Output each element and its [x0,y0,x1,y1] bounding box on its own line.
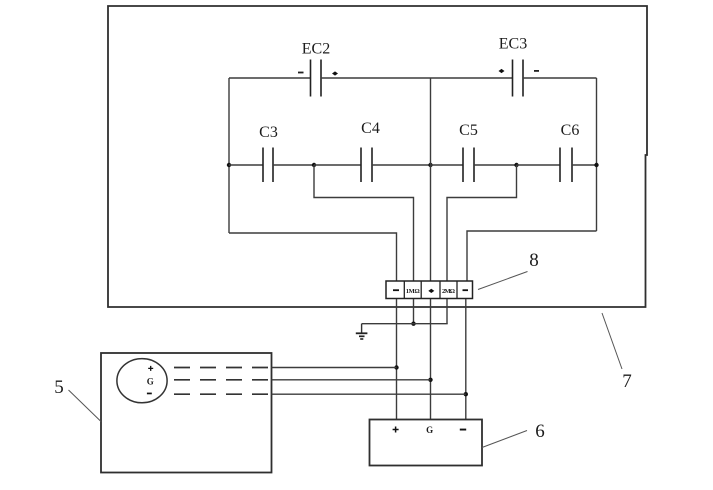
svg-text:C4: C4 [361,120,380,137]
wire [229,164,263,166]
svg-text:5: 5 [54,377,64,398]
capacitor C5 [459,122,478,182]
capacitor EC3 [499,36,540,97]
junction [594,163,598,167]
leader line to box 6 [482,431,527,448]
wire [431,164,464,166]
svg-text:C6: C6 [561,122,580,139]
wire [362,323,448,325]
wire [229,77,311,79]
capacitor EC2 [298,41,338,97]
wire [467,231,597,281]
junction [428,378,432,382]
svg-text:6: 6 [535,421,545,442]
wire [596,78,598,231]
svg-text:1MΩ: 1MΩ [406,288,420,295]
leader line to box 7 [602,313,622,369]
dashed wire [174,379,272,381]
svg-text:G: G [147,377,154,387]
junction [227,163,231,167]
wire [314,165,414,281]
wire [372,164,431,166]
wire [517,164,561,166]
wire [430,299,432,420]
leader line to box 5 [69,390,102,422]
wire [228,78,230,233]
wire [572,164,597,166]
power source box 5 [101,353,272,473]
wire [229,233,397,281]
wire [523,77,597,79]
svg-text:8: 8 [529,250,539,271]
junction [464,392,468,396]
svg-text:2MΩ: 2MΩ [442,288,455,295]
junction [411,322,415,326]
junction [428,163,432,167]
svg-text:G: G [426,425,433,435]
wire [272,379,431,381]
capacitor C4 [361,120,380,182]
leader line to block 8 [478,272,528,290]
dashed wire [174,367,272,369]
battery box 6 [370,420,483,466]
capacitor C6 [560,122,579,182]
wire [474,164,517,166]
dashed wire [174,393,272,395]
wire [447,165,517,281]
wire [465,299,467,420]
svg-text:C5: C5 [459,122,478,139]
svg-text:EC2: EC2 [302,41,330,58]
svg-text:7: 7 [622,371,632,392]
battery symbol [117,359,167,403]
wire [314,164,361,166]
wire [413,299,415,324]
wire [396,299,398,420]
wire [272,367,397,369]
wire [272,393,466,395]
capacitor C3 [259,124,278,182]
junction [394,365,398,369]
junction [514,163,518,167]
svg-text:C3: C3 [259,124,278,141]
wire [321,77,513,79]
enclosure box 7 [108,6,647,307]
wire [430,78,432,281]
svg-text:EC3: EC3 [499,36,527,53]
terminal block 8 [386,281,473,299]
wire [446,299,448,324]
junction [312,163,316,167]
ground [356,324,368,339]
wire [273,164,314,166]
